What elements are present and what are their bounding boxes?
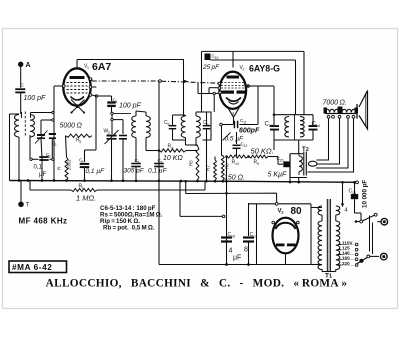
svg-text:A: A <box>26 62 31 69</box>
svg-text:#MA 6-42: #MA 6-42 <box>12 263 52 272</box>
svg-text:16: 16 <box>352 191 356 195</box>
svg-text:1: 1 <box>87 66 89 70</box>
svg-text:2: 2 <box>108 131 110 135</box>
svg-text:12: 12 <box>244 144 248 148</box>
svg-text:R5: R5 <box>189 160 194 166</box>
svg-text:4: 4 <box>116 100 118 104</box>
svg-text:2: 2 <box>243 68 245 72</box>
svg-text:600pF: 600pF <box>239 128 260 135</box>
svg-text:3: 3 <box>49 155 51 159</box>
svg-text:0,1 µF: 0,1 µF <box>86 168 106 175</box>
svg-text:160: 160 <box>342 255 350 260</box>
svg-text:6A7: 6A7 <box>92 61 111 73</box>
svg-text:10 000 pF: 10 000 pF <box>362 180 369 208</box>
svg-text:1 MΩ.: 1 MΩ. <box>76 194 96 203</box>
svg-text:ALLOCCHIO, BACCHINI & C. -: ALLOCCHIO, BACCHINI & C. - MOD. « ROMA » <box>46 278 348 290</box>
svg-text:13: 13 <box>269 123 274 128</box>
svg-text:3: 3 <box>79 140 81 144</box>
svg-text:100 pF: 100 pF <box>24 95 47 102</box>
svg-text:4: 4 <box>171 146 173 150</box>
svg-text:5: 5 <box>82 160 84 164</box>
svg-text:1: 1 <box>82 186 84 190</box>
svg-text:6: 6 <box>138 161 140 165</box>
svg-text:305 pF: 305 pF <box>124 168 145 175</box>
svg-text:R8: R8 <box>225 163 230 169</box>
svg-text:2: 2 <box>306 147 309 153</box>
svg-text:10 KΩ: 10 KΩ <box>163 155 183 162</box>
svg-text:15: 15 <box>280 159 284 163</box>
svg-text:50 KΩ.: 50 KΩ. <box>251 147 274 156</box>
svg-text:MF 468 KHz: MF 468 KHz <box>19 217 68 226</box>
svg-text:10: 10 <box>215 56 219 60</box>
svg-text:10: 10 <box>235 162 239 166</box>
svg-text:T: T <box>26 203 30 209</box>
svg-text:µF: µF <box>233 255 241 262</box>
svg-text:18: 18 <box>231 235 235 239</box>
svg-text:8: 8 <box>244 247 248 254</box>
svg-text:11: 11 <box>243 121 247 125</box>
svg-text:250Ω: 250Ω <box>67 160 72 170</box>
svg-text:25 pF: 25 pF <box>202 64 220 71</box>
svg-text:9: 9 <box>257 162 259 166</box>
svg-text:8: 8 <box>168 123 170 127</box>
svg-text:5 KµF: 5 KµF <box>268 172 288 179</box>
svg-text:R7: R7 <box>206 165 211 171</box>
svg-text:220: 220 <box>342 261 350 266</box>
svg-text:4: 4 <box>229 248 233 255</box>
svg-text:0,1: 0,1 <box>34 165 43 171</box>
svg-text:0,1 µF: 0,1 µF <box>148 168 168 175</box>
svg-text:14: 14 <box>316 123 321 128</box>
svg-text:Rb = pot. 0,5 M Ω.: Rb = pot. 0,5 M Ω. <box>103 225 155 232</box>
svg-text:6AY8-G: 6AY8-G <box>249 64 280 74</box>
svg-text:5000 Ω: 5000 Ω <box>60 123 83 130</box>
svg-text:100 pF: 100 pF <box>119 103 142 110</box>
svg-text:µF: µF <box>39 172 46 178</box>
svg-text:2: 2 <box>55 143 57 147</box>
svg-text:7000 Ω.: 7000 Ω. <box>323 100 347 107</box>
svg-text:4: 4 <box>345 208 348 214</box>
svg-text:9: 9 <box>207 123 209 127</box>
svg-text:80: 80 <box>291 206 303 217</box>
